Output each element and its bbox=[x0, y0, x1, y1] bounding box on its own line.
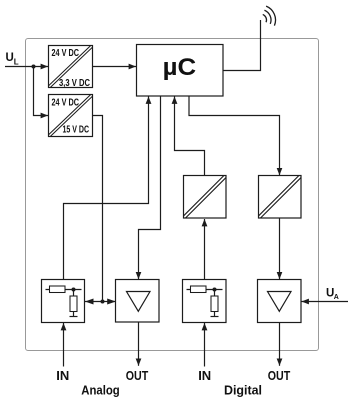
svg-text:A: A bbox=[334, 294, 339, 301]
svg-text:IN: IN bbox=[56, 368, 69, 383]
svg-text:IN: IN bbox=[198, 368, 211, 383]
svg-text:U: U bbox=[6, 52, 14, 64]
svg-text:3,3 V DC: 3,3 V DC bbox=[59, 78, 90, 89]
svg-text:24 V DC: 24 V DC bbox=[52, 48, 80, 59]
svg-text:OUT: OUT bbox=[268, 368, 291, 383]
svg-text:OUT: OUT bbox=[126, 368, 149, 383]
svg-text:Digital: Digital bbox=[224, 383, 262, 398]
svg-text:15 V DC: 15 V DC bbox=[63, 125, 90, 136]
svg-text:24 V DC: 24 V DC bbox=[52, 98, 80, 109]
svg-text:L: L bbox=[14, 58, 19, 67]
svg-text:µC: µC bbox=[163, 54, 197, 81]
svg-text:Analog: Analog bbox=[81, 383, 120, 398]
